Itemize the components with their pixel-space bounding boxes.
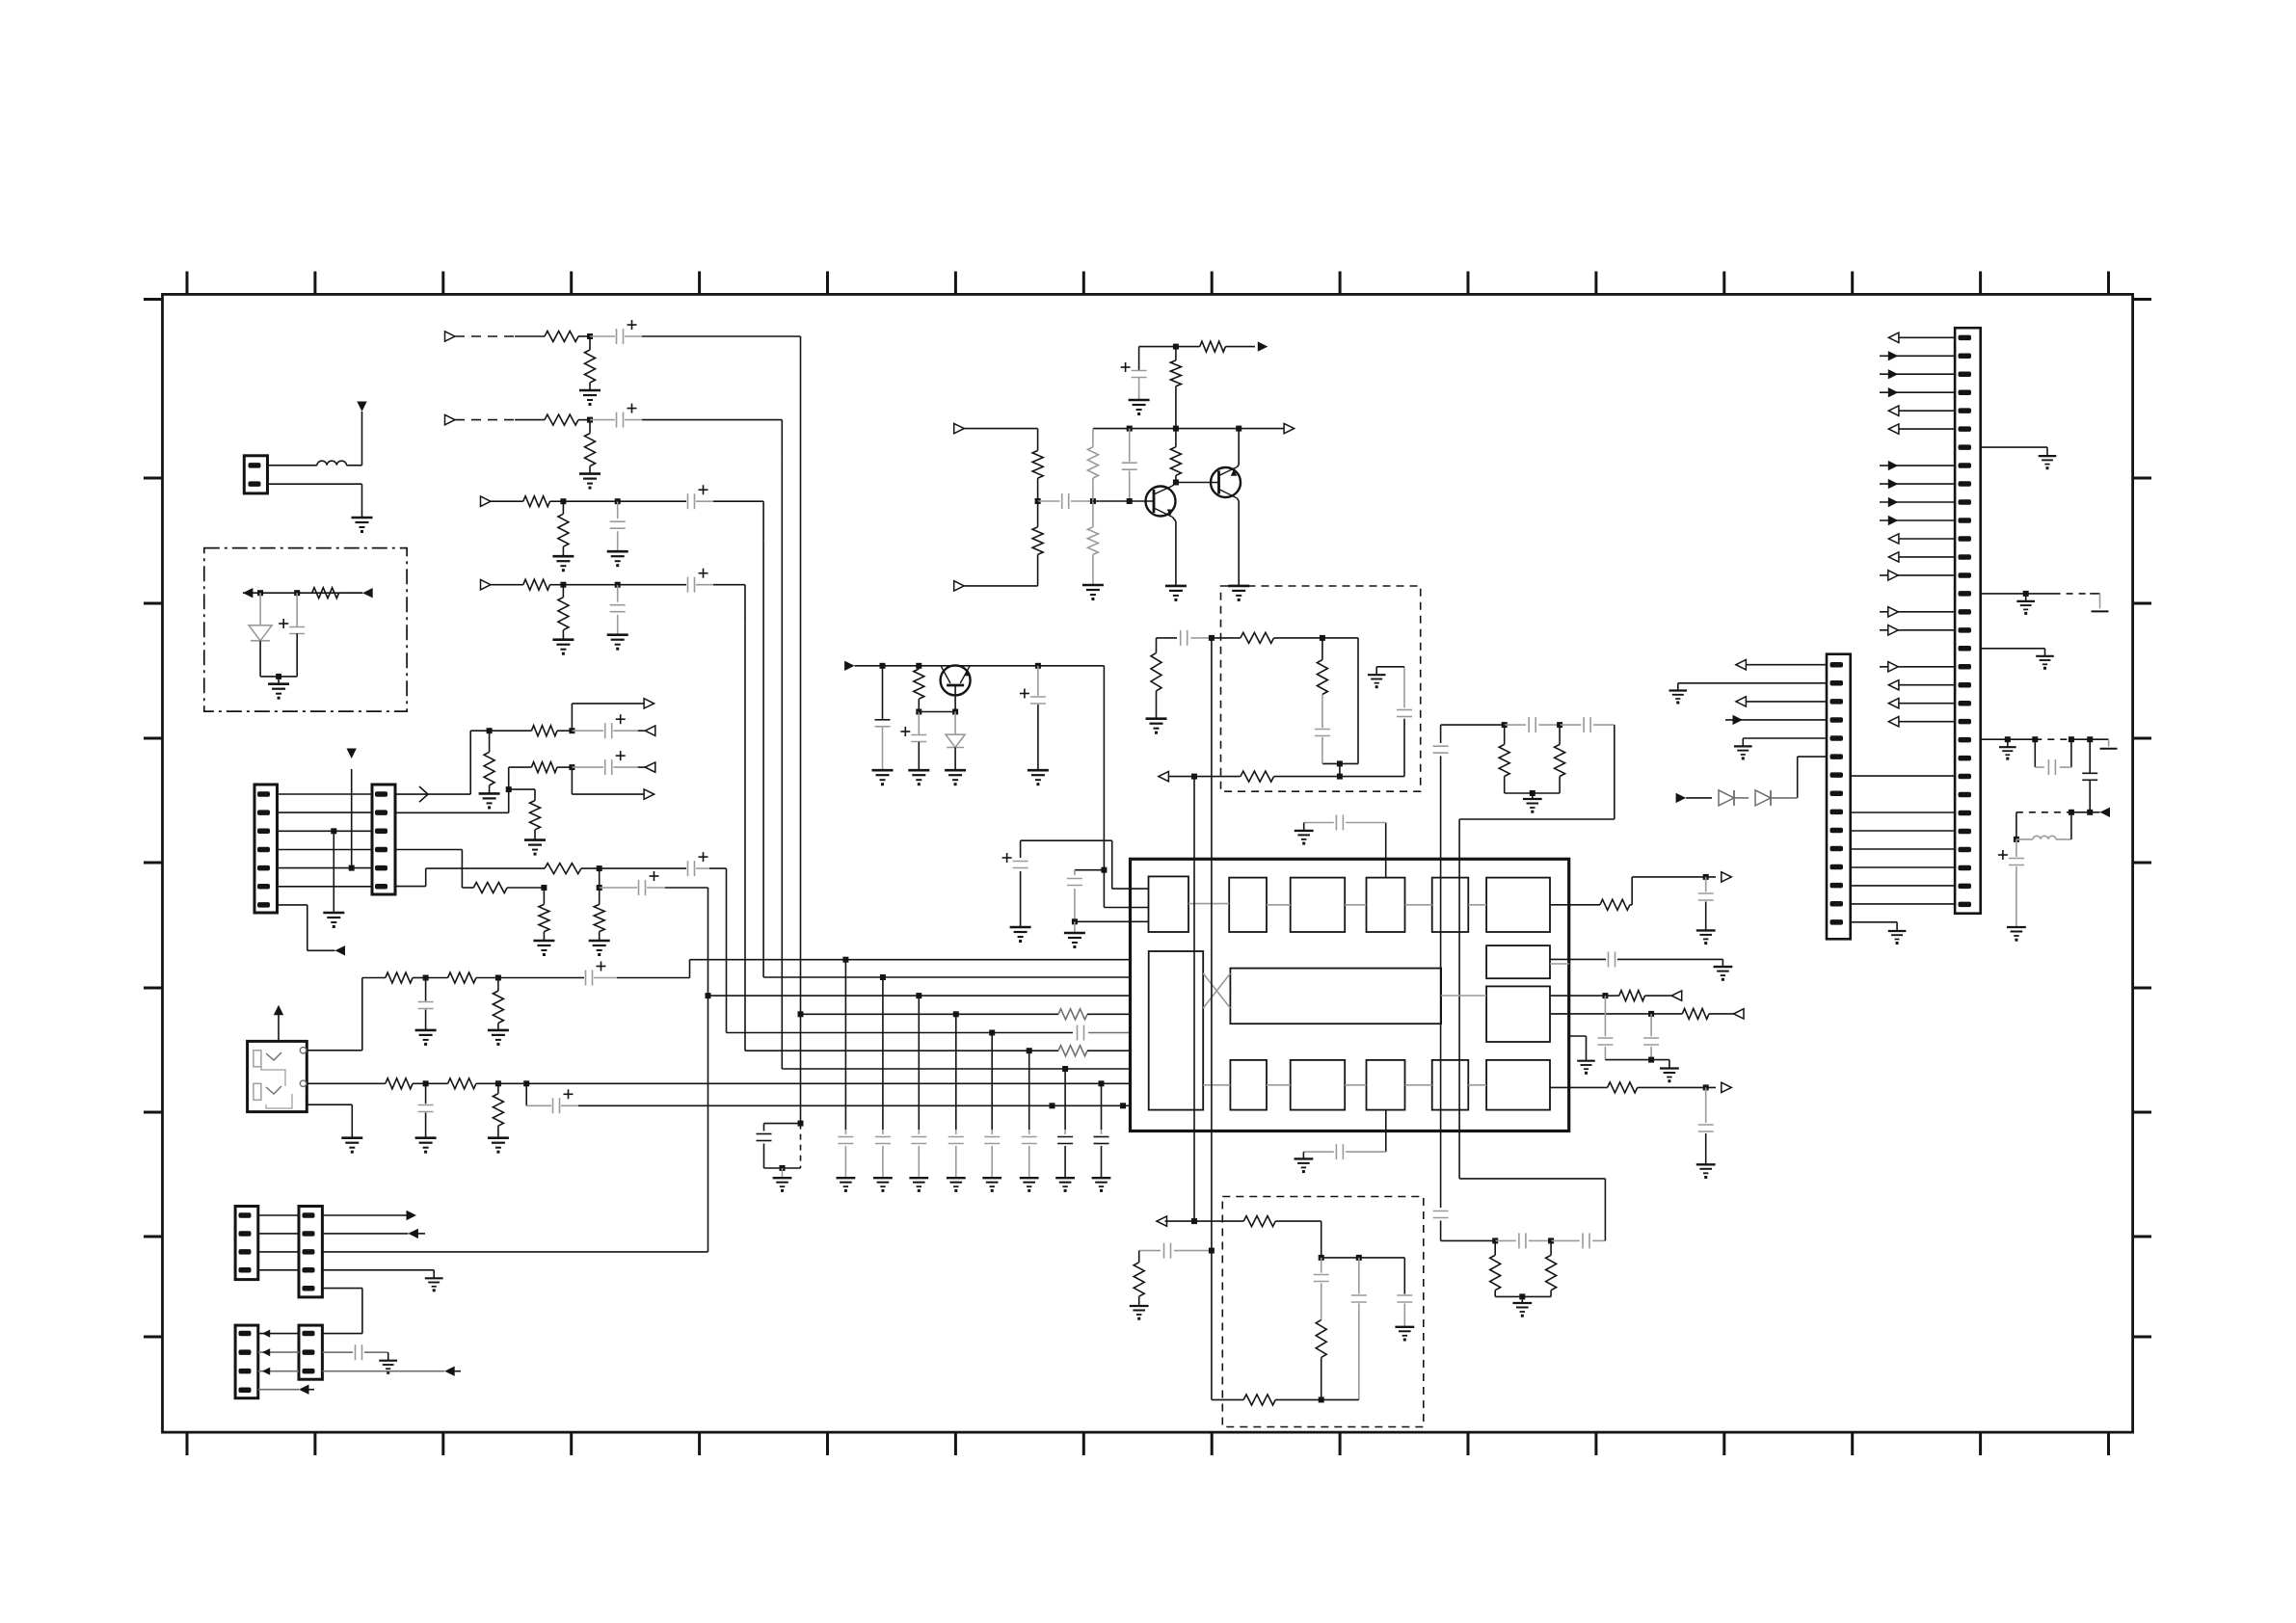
ground (425, 1278, 443, 1291)
wire to resistor (515, 335, 545, 337)
dashed row + arrow (2016, 808, 2110, 817)
resistor R107 collector load (1170, 429, 1181, 476)
inductor loop (2014, 812, 2071, 842)
wire east then south (713, 501, 763, 540)
wire row A east then south (709, 867, 727, 869)
wires CN108-CN109 with arrows (258, 1330, 299, 1375)
wire to resistor (491, 500, 523, 502)
phone jack CN103 (248, 1041, 307, 1111)
wire inductor to node (346, 412, 361, 466)
IC IC101 outline (1131, 859, 1569, 1131)
transistor Q101 (1146, 486, 1176, 518)
CN201 pin6 signal arrow (1888, 424, 1955, 434)
wire resistor to node (578, 333, 593, 339)
CN202 pin5 wire to ground (1734, 738, 1827, 759)
wire arrow to box (1165, 1218, 1244, 1224)
top rail (1139, 344, 1200, 350)
CN202 bottom pin to ground (1851, 922, 1907, 945)
connector CN108 (4-pin) (235, 1325, 258, 1398)
wire to resistor (515, 419, 545, 421)
coupling cap row A (electrolytic) (600, 852, 709, 876)
shunt cap to ground (row1) (1696, 877, 1716, 945)
series resistor (545, 332, 578, 342)
arrow (supply) (1253, 341, 1268, 351)
ground (479, 793, 500, 809)
input arrow row y=435.6 (445, 414, 456, 424)
series cap down (2082, 739, 2097, 815)
resistor R106 (bias lower) (1087, 501, 1098, 585)
ground (945, 770, 966, 785)
connector CN201 (long, right) (1955, 328, 1981, 914)
CN201 pin7 wire to ground (1981, 447, 2057, 469)
wire chain1 east + jog up to IC row1 (617, 960, 1131, 978)
IC internal links bottom row (1267, 1084, 1486, 1086)
IC block E (1432, 878, 1469, 932)
wire CN104 pin7 south to arrow (278, 905, 335, 950)
ground in option box (268, 684, 289, 700)
wire to resistor (491, 584, 523, 586)
wire to node1 (550, 582, 567, 588)
output arrow (open left) (638, 762, 655, 772)
series resistor (523, 579, 550, 590)
cap C136 to ground (1064, 870, 1149, 948)
CN202 pin3 arrow (1736, 697, 1827, 706)
decoupling capacitor C128 to ground (1092, 1080, 1111, 1192)
resistor R104 (lower) (1032, 501, 1043, 586)
row2 cap to ground (322, 1344, 387, 1361)
resistor R101 (1200, 341, 1253, 352)
branch up to output arrow row (572, 704, 645, 731)
row4 wire to arrow left (258, 1385, 314, 1395)
ground (607, 551, 628, 567)
row5 wire jog to CN109 (322, 1289, 362, 1334)
shunt cap to ground (610, 501, 626, 551)
IC input row 1033 (708, 995, 1131, 997)
input arrow row y=349.0 (445, 332, 456, 341)
box cap+resistor chain (1314, 1258, 1329, 1403)
resistor pair to ground (lower) (1490, 1240, 1557, 1303)
bus vertical from row A (726, 868, 728, 1032)
IC input decoder block (1149, 951, 1204, 1110)
IC input row 1109 (782, 1068, 1130, 1070)
IC input row 1090 with series resistor (745, 1046, 1131, 1056)
CN201 pin1 signal arrow (1888, 333, 1955, 342)
input arrow left (954, 423, 965, 433)
arrow right (supply in) (844, 661, 855, 671)
coupling cap net1 (electrolytic) (572, 714, 638, 738)
series resistor row A (545, 864, 602, 874)
ground (341, 1138, 362, 1154)
left ruler ticks (144, 300, 163, 1338)
wire row1 with direction chevron (395, 728, 493, 802)
wire east then south (642, 420, 782, 459)
chain2 shunt resistor (493, 1083, 503, 1137)
base wire Q101 (1093, 498, 1154, 504)
vertical link rowA-rowB nodes (597, 868, 602, 891)
Q101 collector wire (1173, 475, 1179, 486)
IC block D (1367, 878, 1405, 932)
bus vertical from RC row1 (798, 375, 804, 1124)
CN201 pin5 signal arrow (1888, 406, 1955, 415)
wire base node link (919, 711, 955, 713)
CN201 pin16 signal arrow (1880, 607, 1955, 617)
rail drop wire into IC (1101, 867, 1148, 908)
ground (488, 1138, 509, 1154)
IC block A (1149, 876, 1189, 932)
decoupling capacitor C122 to ground (873, 974, 893, 1192)
connector CN104 (7-pin) (254, 785, 278, 913)
dashed box (lower filter) (1222, 1197, 1424, 1427)
CN201 pin10 signal arrow (1880, 497, 1955, 507)
output arrow (open right) (644, 699, 654, 708)
ground (552, 556, 574, 572)
row chain from CN201 pin23 (1981, 736, 2118, 759)
cap C132 (electrolytic) to ground (900, 712, 926, 771)
capacitor C109 (electrolytic) (279, 593, 305, 677)
chain2 shunt cap (418, 1083, 434, 1137)
coupling cap (electrolytic) (590, 404, 642, 428)
ground at CN101 (352, 518, 373, 533)
series resistor net1 (490, 726, 575, 736)
input arrow row y=606.7 (481, 580, 492, 590)
CN201 pin13 signal arrow (1888, 552, 1955, 562)
Q102 collector to ground (1238, 498, 1240, 586)
node C131 (880, 663, 886, 669)
ground (415, 1030, 437, 1046)
wire jack tip to chain1 (307, 978, 386, 1051)
arrow left (signal) (335, 945, 346, 955)
series resistor (545, 414, 578, 425)
CN201 pin14 signal arrow (1880, 571, 1955, 580)
shunt resistor to ground (558, 501, 569, 556)
arrow in (left) (1157, 1216, 1167, 1226)
decoupling capacitor C125 to ground (982, 1030, 1001, 1192)
wire row4 jog down to row A (395, 850, 473, 889)
ground (872, 770, 894, 785)
wire jack ring to chain2 (307, 1082, 386, 1084)
resistor pair to ground (upper) (1499, 725, 1564, 799)
coupling cap row B (electrolytic) (600, 871, 665, 895)
output row2: cap to ground (1550, 951, 1732, 980)
decoupling capacitor C126 to ground (1020, 1048, 1039, 1192)
electrolytic cap C135 to ground (1002, 840, 1031, 943)
chain2 resistor 2 (426, 1078, 501, 1089)
loop bottom rail with series caps (1441, 1233, 1606, 1248)
row3 long wire east to bundle (322, 1251, 707, 1253)
CN202 pin4 arrow filled (1725, 715, 1827, 725)
stub east to shunt resistor (509, 789, 535, 801)
bridge cap between nodes (2035, 739, 2071, 775)
chain1 shunt cap (418, 978, 434, 1030)
series resistor net2 (531, 762, 574, 773)
input arrow row y=520.2 (481, 496, 492, 506)
IC block R1 (1486, 945, 1550, 978)
node R131 (916, 663, 921, 669)
ground (589, 941, 610, 956)
wires CN104-CN105 rows (278, 794, 373, 887)
series resistor (523, 496, 550, 507)
input cap to box (1157, 630, 1215, 646)
cap C133 (electrolytic) to ground (1020, 666, 1046, 770)
top ruler ticks (187, 272, 2109, 295)
shunt resistor to ground (net1) (484, 731, 494, 793)
chain1 shunt resistor (493, 978, 503, 1030)
bus to box bottom (1211, 1251, 1213, 1400)
cap C103 vertical (1122, 429, 1137, 501)
IC block B4 (1432, 1060, 1469, 1110)
row1 wire to arrow right (322, 1211, 416, 1220)
resistor R103 (upper) (1032, 451, 1043, 505)
series resistor row B (473, 883, 547, 893)
dashed wire (455, 419, 515, 421)
box resistor bottom (1212, 1395, 1359, 1405)
CN201 pin9 signal arrow (1880, 479, 1955, 489)
box resistor top (1212, 632, 1325, 643)
wire node1-node2 (563, 582, 620, 588)
decoupling capacitor C127 to ground (1055, 1066, 1075, 1192)
IC internal links top row (1188, 904, 1486, 905)
chain1 resistor 2 (426, 972, 501, 983)
output row3: resistor to arrow (1550, 991, 1682, 1001)
bottom ruler ticks (187, 1432, 2109, 1455)
decoupling capacitor C124 to ground (947, 1011, 966, 1192)
CN202 pin1 arrow (1736, 660, 1827, 670)
ground (1146, 719, 1167, 734)
CN201 pin4 signal arrow (1880, 387, 1955, 397)
loop right vertical + bottom return (1459, 725, 1615, 1179)
base wire Q102 (1176, 482, 1219, 484)
IC block B1 (1230, 1060, 1267, 1110)
bus vertical from row B to CN107 (706, 888, 711, 1252)
connector CN107 (5-pin) (299, 1207, 322, 1297)
connector CN101 (2-pin) (244, 456, 267, 493)
IC aux ground arm (1569, 1036, 1595, 1075)
cap C131 to ground (875, 666, 891, 770)
arrow down (supply feed) (357, 402, 366, 412)
IC crossover X (1203, 964, 1569, 1085)
box node link (1322, 1255, 1405, 1294)
chain2 cap branch (electrolytic) (526, 1083, 578, 1113)
Q101 emitter to ground (1173, 518, 1176, 586)
CN202-CN201 linking rows (1851, 776, 1955, 904)
loop left vertical with cap (1433, 725, 1449, 1208)
shunt resistor to ground (net2) (530, 801, 541, 840)
CN201 pin15 ground + dashed stub (1981, 591, 2109, 615)
mid rail (1093, 426, 1288, 432)
ground (1228, 586, 1249, 601)
wire C135 to IC block A (1021, 840, 1149, 889)
output arrow (open right) (644, 789, 654, 799)
ground (579, 474, 601, 490)
right ruler ticks (2133, 300, 2151, 1338)
CN201 pin19 signal arrow (1880, 662, 1955, 672)
box mid resistor+cap chain (1315, 638, 1343, 767)
input wire left (964, 429, 1037, 451)
lower input wire + arrow (954, 581, 1038, 591)
output arrow (open left) (638, 726, 655, 735)
resistor R102 vertical (1170, 347, 1181, 432)
resistor R105 (bias upper) (1087, 429, 1098, 501)
Q102 emitter to rail (1238, 429, 1240, 467)
input cap left of box (1139, 1243, 1215, 1259)
coupling cap (electrolytic) (590, 320, 642, 344)
chain1 resistor 1 (386, 972, 429, 983)
diode pair row (1676, 790, 1798, 806)
LED D101 (249, 593, 272, 677)
shunt resistor left (1151, 638, 1161, 719)
shunt resistor to ground (585, 336, 596, 390)
dashed box (upper filter) (1221, 586, 1421, 791)
ground (1129, 400, 1150, 415)
coupling cap (electrolytic) (618, 569, 713, 593)
box right loop (1322, 638, 1358, 764)
border frame (163, 294, 2133, 1432)
arrow out (open right) (1284, 423, 1295, 433)
IC block C (1291, 878, 1346, 932)
CN201 pin3 signal arrow (1880, 369, 1955, 379)
bus vertical from RC row4 (744, 624, 746, 1051)
ground (1523, 799, 1542, 813)
ground (1512, 1303, 1532, 1317)
decoupling capacitor C121 to ground (837, 957, 856, 1192)
arrow up from jack (274, 1005, 283, 1042)
wire chain2 cap out east (row9) (578, 1103, 1131, 1108)
ground (415, 1138, 437, 1154)
vertical wire arrow to row5 (349, 769, 355, 871)
shunt resistor left (1130, 1251, 1149, 1320)
wires CN106-CN107 (258, 1215, 299, 1270)
IC block B3 (1367, 1060, 1405, 1110)
zener D103 (946, 712, 965, 771)
cap C102 coupling (1038, 493, 1096, 509)
connector CN202 (right, medium) (1827, 654, 1851, 940)
ground (552, 640, 574, 655)
arrow right end (345, 588, 373, 598)
ground (524, 840, 546, 856)
chain2 resistor 1 (386, 1078, 429, 1089)
transistor Q103 (941, 665, 972, 714)
loop left vertical with cap (1433, 1211, 1449, 1241)
coupling cap (electrolytic) (618, 485, 713, 509)
IC block R3 (1486, 1060, 1550, 1110)
shunt resistor to ground (585, 420, 596, 474)
inductor L101 (317, 461, 347, 466)
wire row2 jog up (395, 767, 531, 812)
resistor R131 (914, 666, 924, 715)
bus vertical from RC row3 (762, 540, 764, 977)
IC input row 1072 with series cap (727, 1025, 1131, 1041)
wire CN101 pin2 to ground (268, 484, 362, 518)
wire LED/cap common (260, 674, 297, 684)
IC input row 1014 (763, 976, 1130, 978)
wire east then south (642, 336, 801, 375)
CN201 pin21 signal arrow (1888, 699, 1955, 708)
arrow down feed (347, 749, 357, 759)
ground (1082, 585, 1104, 600)
shunt cap to ground (610, 585, 626, 635)
CN201 pin17 signal arrow (1880, 625, 1955, 635)
shunt cap to ground (row5) (1696, 1087, 1716, 1179)
ground (379, 1361, 397, 1374)
CN201 pin8 signal arrow (1880, 461, 1955, 470)
CN201 pin22 signal arrow (1888, 717, 1955, 727)
ground inside box (1368, 675, 1386, 688)
output row5: resistor to arrow with cap (1550, 1082, 1731, 1093)
wire jack sleeve to ground (307, 1104, 352, 1138)
box resistor bottom (1166, 771, 1404, 782)
IC input row 1052 with series resistor (801, 1009, 1131, 1020)
row3 shunt cap (1597, 996, 1613, 1060)
row2 wire to arrow left (322, 1229, 425, 1238)
ground (1028, 770, 1049, 785)
shunt resistor to ground (rowA node) (594, 888, 604, 941)
ground (533, 941, 554, 956)
electrolytic to ground (1998, 839, 2026, 942)
loop right return to IC (1459, 1179, 1605, 1241)
node LED anode (257, 590, 263, 596)
ground (488, 1030, 509, 1046)
IC block F (1486, 878, 1550, 932)
arrow out left (1159, 771, 1169, 781)
CN201 pin20 signal arrow (1888, 680, 1955, 690)
caps common bar + ground (1605, 1060, 1678, 1083)
box mid cap chain (1351, 1258, 1367, 1400)
transistor Q102 (1211, 467, 1241, 499)
node C133 (1035, 663, 1041, 669)
CN202 pin6 wire to diode pair (1798, 757, 1827, 798)
connector CN109 (3-pin) (299, 1325, 322, 1379)
CN201 pin11 signal arrow (1880, 516, 1955, 525)
wire to node1 (550, 498, 567, 504)
connector CN105 (6-pin) (372, 785, 395, 894)
shunt resistor to ground (558, 585, 569, 640)
row4 wire to ground (322, 1270, 434, 1279)
wire resistor to node (578, 417, 593, 423)
output row4: resistor to arrow (1550, 1008, 1744, 1019)
IC central DSP block (1230, 969, 1441, 1024)
CN202 pin2 wire to ground hook (1669, 683, 1828, 705)
CN201 pin18 wire to ground (1981, 649, 2054, 670)
dashed wire (455, 335, 515, 337)
row3 wire to arrow left (322, 1367, 461, 1376)
CN201 pin12 signal arrow (1888, 534, 1955, 544)
ground (908, 770, 929, 785)
loop top rail with series caps (1441, 717, 1615, 732)
arrow left (to connector) (243, 588, 254, 598)
IC block R2 (1486, 986, 1550, 1042)
dashed test cap box (757, 1121, 804, 1192)
wire row6 jog up to row A (395, 868, 545, 887)
coupling cap net2 (electrolytic) (572, 751, 638, 775)
bus vertical from RC row2 (781, 459, 783, 1069)
wire chain2 east to IC row8 (498, 1080, 1131, 1086)
wire CN101 pin1 to inductor (268, 465, 317, 466)
cap C101 (electrolytic) to ground (1121, 347, 1147, 400)
box inner ground arm (1340, 667, 1412, 777)
option box (dash-dot) (204, 548, 407, 712)
cap to ground above IC (block D) (1295, 815, 1386, 878)
cap to ground below IC (block B3) (1295, 1110, 1386, 1174)
ground (607, 635, 628, 651)
wire internal rail (243, 592, 362, 594)
IC block B (1229, 878, 1267, 932)
CN201 pin2 signal arrow (1880, 351, 1955, 360)
supply rail (855, 666, 1105, 870)
chain1 coupling cap (electrolytic) (498, 962, 617, 986)
wire node1-node2 (563, 498, 620, 504)
box right cap to ground (1395, 1295, 1414, 1342)
node cap plus (294, 590, 300, 596)
